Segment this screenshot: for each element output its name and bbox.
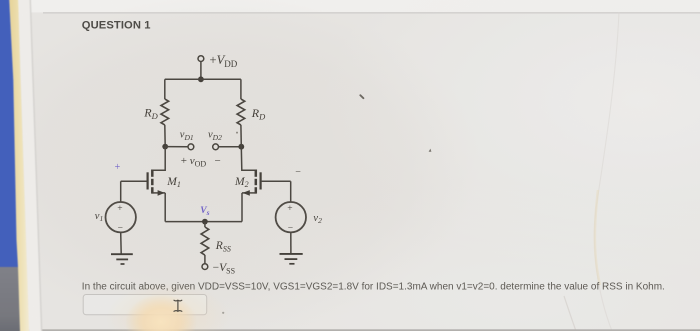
svg-text:−VSS: −VSS (213, 262, 235, 275)
wire v2 to ground (290, 232, 292, 253)
source v2 (276, 202, 322, 233)
wire M1 source down (164, 193, 166, 222)
wire RSS to -VSS terminal (204, 255, 206, 264)
svg-text:−: − (295, 167, 301, 178)
wire M2 drain (241, 147, 256, 171)
svg-text:−: − (118, 223, 123, 233)
transistor M2 (234, 170, 261, 196)
resistor RSS (201, 227, 231, 255)
wire left branch to RD (164, 79, 166, 99)
svg-text:Vs: Vs (200, 206, 209, 217)
source v1 (95, 202, 136, 233)
svg-text:vD1: vD1 (180, 130, 194, 142)
svg-text:−: − (288, 223, 293, 233)
wire M1 drain (152, 147, 165, 171)
wire M1 gate (121, 180, 147, 182)
transistor M1 (148, 170, 181, 196)
wire RD left to node vD1 (164, 125, 166, 147)
svg-text:+ vOD −: + vOD − (181, 155, 221, 168)
ground v2 (280, 254, 303, 264)
wire terminal vD2 to node (219, 146, 242, 148)
svg-text:+: + (117, 204, 122, 214)
svg-text:+: + (287, 204, 292, 214)
svg-text:RSS: RSS (215, 240, 231, 253)
wire node to terminal vD1 (165, 146, 188, 148)
terminal -VSS (202, 262, 235, 275)
wire Vs to RSS (204, 222, 206, 227)
svg-text:RD: RD (143, 105, 158, 120)
svg-text:+: + (115, 162, 121, 173)
svg-text:v2: v2 (313, 213, 322, 225)
node VDD junction (198, 76, 204, 82)
svg-text:vD2: vD2 (208, 130, 222, 142)
node vD1 junction (162, 144, 168, 150)
wire v2 to gate corner (290, 181, 292, 202)
wire right branch to RD (240, 79, 242, 99)
wire RD right to node vD2 (240, 125, 242, 147)
wire v1 to ground (120, 232, 123, 253)
node vD2 junction (238, 144, 244, 150)
terminal vD1 (180, 130, 194, 150)
terminal vD2 (208, 130, 222, 150)
node Vs (200, 206, 209, 225)
terminal +VDD (198, 53, 238, 69)
wire VDD stub (200, 62, 202, 80)
wire source rail (165, 221, 242, 223)
svg-text:v1: v1 (95, 211, 103, 223)
wire top rail (165, 78, 241, 80)
ground v1 (111, 254, 133, 264)
svg-text:+VDD: +VDD (210, 53, 238, 69)
wire v1 to gate corner (120, 181, 122, 202)
svg-text:M2: M2 (234, 176, 249, 189)
resistor RD right (237, 99, 266, 125)
resistor RD left (143, 99, 168, 125)
svg-text:RD: RD (251, 106, 266, 121)
wire M2 gate (261, 180, 291, 182)
svg-text:M1: M1 (166, 176, 181, 189)
wire M2 source down (241, 193, 243, 222)
